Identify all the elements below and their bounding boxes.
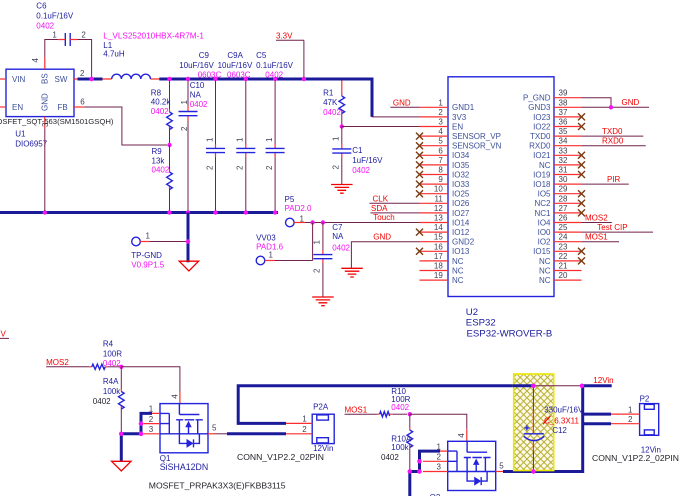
svg-text:2: 2: [81, 31, 86, 40]
ground under C1: [331, 185, 353, 194]
svg-text:C1: C1: [352, 146, 363, 155]
svg-text:C5: C5: [256, 51, 267, 60]
thick wire Q2 source to bottom net: [410, 451, 440, 496]
U2 pin 23 IO15: [533, 242, 585, 256]
resistor R8: [167, 81, 173, 146]
U2 pin 19 NC: [420, 271, 464, 285]
svg-text:TXD0: TXD0: [530, 132, 551, 141]
junction GND pins 39/38: [609, 105, 613, 109]
svg-text:35: 35: [559, 127, 568, 136]
capacitor C5: [265, 81, 285, 212]
svg-text:TP-GND: TP-GND: [131, 251, 162, 260]
svg-text:2: 2: [437, 453, 442, 462]
svg-text:IO19: IO19: [533, 170, 551, 179]
capacitor C9: [205, 81, 225, 212]
junction TP-GND node: [186, 239, 190, 243]
Q1 gate pin 4: [170, 392, 180, 404]
junctions on GND bus: [43, 210, 278, 214]
net label GND at ESP32 pin1: [390, 98, 419, 107]
svg-text:MOSFET_PRPAK3X3(E)FKBB3115: MOSFET_PRPAK3X3(E)FKBB3115: [149, 481, 286, 491]
capacitor C6: [52, 31, 86, 47]
junction P5/VV03: [310, 220, 314, 224]
net label GND at ESP32 pin15: [351, 233, 419, 269]
test point TP-GND: [132, 232, 186, 246]
U2 pin 10 IO25: [416, 185, 470, 199]
svg-text:0402: 0402: [391, 403, 409, 412]
regulator U1 DIO6957: [6, 69, 74, 116]
R8 labels: [151, 88, 172, 116]
svg-text:34: 34: [559, 137, 568, 146]
junction EN node: [340, 124, 344, 128]
U2 pin 6 IO34: [416, 146, 470, 160]
svg-text:100R: 100R: [103, 349, 122, 358]
svg-text:R1: R1: [323, 88, 334, 97]
svg-text:26: 26: [559, 214, 568, 223]
net label RXD0: [582, 137, 646, 146]
svg-text:NC: NC: [539, 161, 551, 170]
U2 pin 24 IO2: [538, 233, 582, 247]
svg-text:15: 15: [434, 233, 443, 242]
wire FB to divider tap: [84, 107, 167, 145]
svg-text:13k: 13k: [152, 157, 166, 166]
svg-text:2: 2: [313, 268, 322, 273]
svg-text:1: 1: [52, 31, 57, 40]
svg-text:BS: BS: [41, 73, 50, 84]
U1 pin 2 SW: [74, 69, 85, 79]
svg-text:1uF/16V: 1uF/16V: [352, 156, 383, 165]
wire 3.3V rail to ESP32 pin2: [372, 116, 420, 118]
svg-text:22: 22: [559, 252, 568, 261]
U2 pin 31 IO19: [533, 166, 585, 180]
U2 pin 34 RXD0: [529, 137, 581, 151]
C7 labels: [332, 223, 350, 252]
svg-text:EN: EN: [12, 103, 23, 112]
svg-text:EN: EN: [452, 122, 463, 131]
svg-text:RXD0: RXD0: [529, 142, 551, 151]
U2 pin 13 IO14: [420, 214, 470, 228]
svg-text:MOS2: MOS2: [46, 358, 69, 367]
svg-text:P2A: P2A: [313, 402, 329, 411]
svg-text:NC: NC: [539, 266, 551, 275]
svg-text:NC: NC: [452, 257, 464, 266]
U2 pin 15 GND2: [420, 233, 475, 247]
svg-text:GND3: GND3: [528, 103, 551, 112]
U2 pin 16 IO13: [416, 242, 470, 256]
wire C6 pin1 to U1 pin4: [45, 40, 59, 58]
U2 pin 17 NC: [420, 252, 464, 266]
svg-text:2: 2: [236, 165, 245, 170]
svg-text:0402: 0402: [151, 107, 169, 116]
svg-text:6: 6: [80, 97, 85, 106]
svg-text:IO2: IO2: [538, 238, 551, 247]
U2 pin 21 NC: [539, 262, 582, 276]
svg-text:7: 7: [438, 156, 443, 165]
svg-text:VV03: VV03: [256, 234, 276, 243]
svg-text:SDA: SDA: [371, 204, 388, 213]
thick wire Q1 drain to P2A pin2: [227, 432, 286, 435]
U2 pin 38 GND3: [528, 98, 581, 112]
U2 pin 1 GND1: [420, 98, 475, 112]
svg-text:SENSOR_VN: SENSOR_VN: [452, 142, 502, 151]
svg-text:CLK: CLK: [373, 194, 389, 203]
svg-text:IO15: IO15: [533, 247, 551, 256]
svg-text:NC: NC: [539, 257, 551, 266]
P2 pin 2: [583, 415, 640, 424]
svg-text:5: 5: [499, 461, 504, 470]
U1 pin 4 (top): [31, 58, 45, 70]
junction C12 bottom: [531, 469, 535, 473]
svg-text:IO0: IO0: [538, 228, 551, 237]
TP-GND labels: [131, 251, 164, 270]
R10 labels: [391, 387, 410, 412]
svg-text:MOSFET_SQT-563(SM1501GSQH): MOSFET_SQT-563(SM1501GSQH): [0, 117, 114, 126]
U2 pin 37 IO23: [533, 108, 585, 122]
P2A pin 2: [286, 425, 312, 434]
svg-text:11: 11: [434, 194, 443, 203]
svg-text:L1: L1: [103, 41, 112, 50]
svg-text:NC2: NC2: [534, 199, 551, 208]
wire EN node to ESP32 pin3: [342, 126, 420, 128]
svg-text:1: 1: [300, 215, 305, 224]
svg-text:0402: 0402: [190, 100, 208, 109]
svg-text:PIR: PIR: [607, 175, 621, 184]
resistor R9: [167, 145, 173, 211]
svg-text:9: 9: [438, 175, 443, 184]
svg-text:3.3V: 3.3V: [276, 32, 293, 41]
net label MOS2 right: [582, 213, 612, 222]
Q2 pins 1 2 3: [423, 442, 448, 471]
svg-text:1: 1: [265, 137, 274, 142]
thick wire at SW pin: [78, 78, 103, 81]
U2 pin 26 IO4: [538, 214, 582, 228]
R10A labels: [381, 435, 412, 462]
net label PIR: [582, 175, 629, 184]
net label Test CIP: [582, 223, 654, 232]
U2 pin 8 IO32: [416, 166, 470, 180]
svg-text:1: 1: [437, 442, 442, 451]
svg-text:IO4: IO4: [538, 218, 551, 227]
svg-text:13: 13: [434, 214, 443, 223]
svg-text:19: 19: [434, 271, 443, 280]
svg-text:0402: 0402: [381, 453, 399, 462]
U2 pin 27 NC1: [534, 204, 585, 218]
svg-text:V0.9P1.5: V0.9P1.5: [131, 261, 164, 270]
thick drop bus to ground: [187, 213, 190, 263]
svg-text:0603C: 0603C: [198, 71, 222, 80]
svg-text:SENSOR_VP: SENSOR_VP: [452, 132, 501, 141]
svg-text:1: 1: [302, 414, 307, 423]
resistor R10: [377, 412, 407, 417]
svg-text:8: 8: [438, 166, 443, 175]
svg-text:3: 3: [149, 425, 154, 434]
thick 12Vin hook to P2A pin1: [238, 386, 533, 424]
svg-text:10: 10: [434, 185, 443, 194]
svg-text:14: 14: [434, 223, 443, 232]
svg-text:U1: U1: [15, 130, 26, 139]
svg-text:Touch: Touch: [373, 213, 394, 222]
net label CLK at ESP32 pin11: [370, 194, 420, 203]
svg-text:17: 17: [434, 252, 443, 261]
R9 labels: [152, 147, 170, 174]
capacitor C9A: [236, 81, 256, 212]
svg-text:4: 4: [170, 394, 179, 399]
svg-text:5: 5: [212, 424, 217, 433]
net label MOS1 right: [582, 233, 620, 242]
P2 pin 1: [583, 405, 640, 414]
svg-text:C9A: C9A: [227, 51, 243, 60]
svg-text:40.2k: 40.2k: [151, 98, 172, 107]
ground under GND label: [341, 268, 363, 277]
capacitor C10: [179, 81, 198, 212]
Q1 pin 5 drain: [208, 424, 227, 434]
U1 pin 6 FB: [74, 97, 85, 107]
wire GND net pins 39/38: [582, 98, 650, 108]
svg-text:IO12: IO12: [452, 228, 470, 237]
U2 pin 29 IO5: [538, 185, 585, 199]
svg-text:C12: C12: [552, 426, 567, 435]
svg-text:10uF/16V: 10uF/16V: [179, 61, 214, 70]
U2 pin 35 TXD0: [530, 127, 581, 141]
U2 pin 2 3V3: [420, 108, 467, 122]
svg-text:R8: R8: [151, 88, 162, 97]
Q2 pin 5 drain: [496, 461, 505, 471]
svg-text:0.1uF/16V: 0.1uF/16V: [256, 61, 294, 70]
C9 C9A C5 labels: [179, 51, 293, 80]
svg-text:P_GND: P_GND: [523, 94, 551, 103]
svg-text:30: 30: [559, 175, 568, 184]
svg-text:L_VLS252010HBX-4R7M-1: L_VLS252010HBX-4R7M-1: [103, 31, 204, 40]
wire P5 to ESP32 pin13 (Touch net): [305, 222, 420, 224]
transistor Q2 body: [448, 441, 496, 490]
R1 labels: [323, 88, 341, 117]
junction R4A bottom: [119, 432, 123, 436]
U2 pin 18 NC: [420, 262, 464, 276]
ground triangle under Q1: [112, 461, 131, 471]
capacitor C12 electrolytic: [524, 386, 545, 470]
svg-text:IO22: IO22: [533, 122, 551, 131]
U2 pin 36 IO22: [533, 118, 585, 132]
svg-text:25: 25: [559, 223, 568, 232]
svg-text:IO33: IO33: [452, 180, 470, 189]
pad VV03: [256, 234, 284, 265]
svg-text:2: 2: [332, 165, 341, 170]
svg-text:IO25: IO25: [452, 190, 470, 199]
svg-text:CONN_V1P2.2_02PIN: CONN_V1P2.2_02PIN: [592, 453, 679, 463]
U2 pin 4 SENSOR_VP: [416, 127, 501, 141]
svg-text:P2: P2: [640, 395, 650, 404]
svg-text:U2: U2: [466, 307, 478, 318]
svg-text:ESP32-WROVER-B: ESP32-WROVER-B: [467, 329, 553, 340]
svg-text:23: 23: [559, 242, 568, 251]
svg-text:R9: R9: [152, 147, 163, 156]
svg-text:12: 12: [434, 204, 443, 213]
Q2 gate pin 4: [457, 429, 467, 441]
junction C12 top: [531, 384, 535, 388]
svg-text:GND: GND: [393, 98, 411, 107]
thick wire Q2 drain to P2: [503, 386, 583, 472]
U2 pin 25 IO0: [538, 223, 582, 237]
svg-text:100k: 100k: [103, 387, 121, 396]
thin 12Vin rail segment: [533, 385, 582, 387]
svg-text:IO14: IO14: [452, 218, 470, 227]
svg-text:1: 1: [149, 405, 154, 414]
U1 pin 3 (bottom): [41, 117, 50, 129]
svg-text:27: 27: [559, 204, 568, 213]
svg-text:4.7uH: 4.7uH: [103, 50, 125, 59]
ESP32 module U2: [448, 77, 554, 297]
svg-text:1: 1: [236, 137, 245, 142]
svg-text:GND: GND: [41, 93, 50, 111]
U2 pin 30 IO18: [533, 175, 581, 189]
wire R10 node to Q2 gate: [410, 414, 467, 429]
ground under C7: [312, 297, 334, 306]
svg-text:R4: R4: [103, 339, 114, 348]
inductor L1: [103, 74, 160, 79]
svg-text:33: 33: [559, 146, 568, 155]
resistor R10A: [407, 414, 413, 470]
C1 labels: [352, 146, 383, 175]
pad P5: [285, 195, 313, 227]
svg-text:4: 4: [438, 127, 443, 136]
P2A pin 1: [286, 414, 312, 423]
junction SW node: [89, 77, 93, 81]
R4 labels: [103, 339, 122, 368]
thick wire Q1 source to ground: [121, 413, 152, 462]
svg-text:DIO6957: DIO6957: [15, 140, 48, 149]
thick 3.3V rail: [159, 79, 372, 117]
net label 12Vin: [582, 376, 614, 386]
svg-text:1: 1: [438, 98, 443, 107]
Q1 labels: [160, 454, 208, 472]
svg-text:5: 5: [438, 137, 443, 146]
svg-text:NC: NC: [452, 266, 464, 275]
svg-text:CONN_V1P2.2_02PIN: CONN_V1P2.2_02PIN: [237, 452, 324, 462]
wire C6 pin2 down to SW node: [77, 40, 91, 78]
U2 pin 39 P_GND: [523, 89, 582, 103]
svg-text:RXD0: RXD0: [602, 137, 624, 146]
capacitor C1: [332, 127, 352, 185]
svg-text:IO23: IO23: [533, 113, 551, 122]
svg-text:SW: SW: [55, 75, 68, 84]
svg-text:NC1: NC1: [534, 209, 551, 218]
connector P2A: [312, 402, 334, 443]
svg-text:3: 3: [438, 118, 443, 127]
resistor R1: [339, 81, 345, 127]
svg-text:2: 2: [628, 415, 633, 424]
resistor R4A: [119, 367, 125, 432]
U2 pin 22 NC: [539, 252, 585, 266]
svg-text:R4A: R4A: [103, 377, 119, 386]
wire U1 GND pin to bus: [44, 129, 46, 211]
R4A labels: [93, 377, 121, 406]
svg-text:1: 1: [146, 232, 151, 241]
svg-text:0402: 0402: [93, 397, 111, 406]
U2 pin 11 IO26: [420, 194, 470, 208]
svg-text:32: 32: [559, 156, 568, 165]
svg-text:39: 39: [559, 89, 568, 98]
svg-text:3V3: 3V3: [452, 113, 467, 122]
svg-text:V: V: [1, 330, 7, 339]
svg-text:16: 16: [434, 242, 443, 251]
junction R10/R10A: [408, 412, 412, 416]
svg-text:12Vin: 12Vin: [593, 376, 613, 385]
svg-text:TXD0: TXD0: [602, 127, 623, 136]
junctions Q2 source pins: [417, 459, 421, 474]
C12 labels: [543, 406, 584, 435]
svg-text:PAD2.0: PAD2.0: [285, 204, 313, 213]
net label SDA at ESP32 pin12: [371, 204, 420, 213]
ground triangle below bus: [179, 261, 198, 271]
L1 labels: [103, 31, 204, 58]
svg-text:C6: C6: [36, 1, 47, 10]
svg-text:C9: C9: [199, 51, 210, 60]
svg-text:2: 2: [265, 165, 274, 170]
svg-text:0402: 0402: [352, 166, 370, 175]
net label MOS1 left: [345, 406, 378, 415]
svg-text:NA: NA: [332, 232, 344, 241]
svg-text:29: 29: [559, 185, 568, 194]
svg-text:20: 20: [559, 271, 568, 280]
junction 12Vin / P2 drop: [580, 384, 584, 388]
svg-text:1: 1: [332, 136, 341, 141]
highlight hatch region over C12: [514, 374, 554, 471]
svg-text:MOS1: MOS1: [585, 233, 608, 242]
svg-text:P5: P5: [285, 195, 295, 204]
U2 pin 14 IO12: [416, 223, 470, 237]
net label TXD0: [582, 127, 644, 136]
svg-text:NC: NC: [539, 276, 551, 285]
svg-text:GND1: GND1: [452, 103, 475, 112]
svg-text:IO13: IO13: [452, 247, 470, 256]
net label 3.3V: [276, 32, 304, 78]
svg-text:0402: 0402: [265, 71, 283, 80]
svg-text:0402: 0402: [323, 108, 341, 117]
svg-text:IO35: IO35: [452, 161, 470, 170]
junction P5/C7: [321, 220, 325, 224]
svg-text:28: 28: [559, 194, 568, 203]
svg-text:IO26: IO26: [452, 199, 470, 208]
svg-text:FB: FB: [58, 103, 68, 112]
Q1 pins 1 2 3: [144, 405, 161, 434]
clipped net label V at left edge: [0, 330, 9, 339]
junctions on 3.3V rail: [167, 77, 306, 81]
svg-text:0603C: 0603C: [227, 71, 251, 80]
svg-text:IO5: IO5: [538, 190, 551, 199]
svg-text:0402: 0402: [36, 21, 54, 30]
capacitor C7: [313, 223, 333, 298]
transistor Q1 body: [160, 404, 208, 453]
junction dots over thick wires: [89, 77, 584, 474]
svg-text:21: 21: [559, 262, 568, 271]
svg-text:24: 24: [559, 233, 568, 242]
svg-text:PAD1.6: PAD1.6: [256, 243, 284, 252]
svg-text:MOS1: MOS1: [345, 406, 368, 415]
U2 pin 28 NC2: [534, 194, 585, 208]
svg-text:6: 6: [438, 146, 443, 155]
svg-text:100k: 100k: [391, 443, 409, 452]
svg-text:MOS2: MOS2: [585, 213, 608, 222]
C6 labels: [36, 1, 74, 30]
svg-text:IO27: IO27: [452, 209, 470, 218]
svg-text:4: 4: [457, 433, 466, 438]
U1 pin 5 EN wire to left edge: [0, 106, 6, 108]
svg-text:IO34: IO34: [452, 151, 470, 160]
junction divider tap: [167, 143, 171, 147]
thick GND bus: [0, 211, 278, 214]
svg-text:GND: GND: [622, 98, 640, 107]
wire R4 node to Q1 gate: [121, 367, 180, 392]
svg-text:ESP32: ESP32: [466, 318, 496, 329]
